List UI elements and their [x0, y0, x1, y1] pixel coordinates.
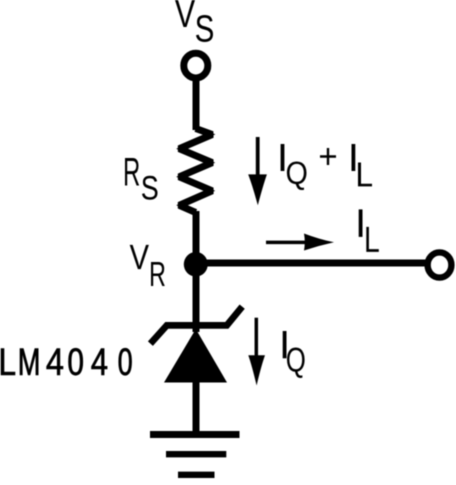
- resistor RS: [179, 129, 212, 213]
- ground: [150, 435, 240, 475]
- wire VS terminal to resistor RS: [193, 77, 200, 130]
- wire node VR to output terminal: [196, 260, 428, 267]
- wire resistor RS to node VR: [193, 211, 200, 264]
- label LM4040: [1, 348, 132, 375]
- label IQ + IL: [281, 144, 372, 190]
- arrow IL: [266, 234, 334, 251]
- zener diode LM4040 anode triangle: [164, 329, 227, 383]
- label IQ: [283, 331, 305, 378]
- net label VR: [130, 245, 165, 286]
- label IL: [359, 209, 379, 252]
- arrow IQ: [248, 318, 265, 386]
- wire node VR to zener LM4040: [193, 264, 200, 332]
- terminal VS: [184, 53, 208, 78]
- net label VS: [175, 0, 213, 42]
- terminal IL output: [428, 252, 452, 277]
- zener diode LM4040 cathode bar: [150, 307, 242, 344]
- label RS: [125, 158, 158, 200]
- junction node VR: [184, 252, 208, 277]
- wire zener LM4040 anode to ground: [193, 380, 200, 434]
- arrow IQ+IL: [248, 137, 267, 205]
